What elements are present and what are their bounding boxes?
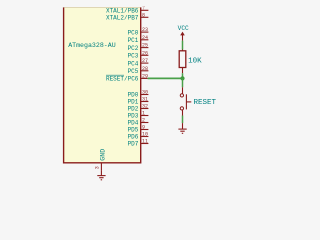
pin 28 PC5	[128, 66, 149, 75]
svg-text:29: 29	[142, 73, 148, 79]
pin 1 PD3	[128, 111, 149, 120]
pin 9 PD5	[128, 125, 149, 134]
svg-text:31: 31	[142, 97, 148, 103]
wire (VCC to R1)	[182, 41, 184, 50]
svg-text:VCC: VCC	[178, 25, 189, 32]
pin 7 XTAL1/PB6	[106, 5, 148, 14]
pin 8 XTAL2/PB7	[106, 12, 148, 21]
pin 24 PC1	[128, 35, 149, 44]
svg-text:7: 7	[142, 5, 145, 11]
svg-text:PD4: PD4	[128, 120, 139, 127]
svg-text:PD6: PD6	[128, 134, 139, 141]
pin 10 PD6	[128, 132, 149, 141]
svg-text:27: 27	[142, 58, 148, 64]
svg-text:26: 26	[142, 50, 148, 56]
svg-text:32: 32	[142, 104, 148, 110]
svg-text:9: 9	[142, 125, 145, 131]
wire (RESET/PC6 to junction)	[148, 77, 183, 79]
svg-text:XTAL2/PB7: XTAL2/PB7	[106, 15, 139, 22]
svg-text:PC4: PC4	[128, 60, 139, 67]
svg-text:24: 24	[142, 35, 148, 41]
svg-text:28: 28	[142, 66, 148, 72]
pin 2 PD4	[128, 118, 149, 127]
svg-text:RESET/PC6: RESET/PC6	[106, 76, 139, 83]
svg-text:PD1: PD1	[128, 99, 139, 106]
svg-text:ATmega328-AU: ATmega328-AU	[68, 42, 116, 49]
svg-text:PC0: PC0	[128, 29, 139, 36]
power VCC	[178, 25, 189, 41]
switch SW1 RESET	[180, 87, 216, 110]
ground (under SW1)	[178, 123, 186, 133]
svg-text:PC1: PC1	[128, 37, 139, 44]
wire (SW1 to ground)	[182, 110, 184, 123]
svg-text:30: 30	[142, 90, 148, 96]
svg-text:25: 25	[142, 43, 148, 49]
svg-text:PD2: PD2	[128, 106, 139, 113]
pin 30 PD0	[128, 90, 149, 99]
pin 11 PD7	[128, 139, 149, 148]
wire (R1 to junction)	[182, 73, 184, 78]
pin 25 PC2	[128, 43, 149, 52]
pin 26 PC3	[128, 50, 149, 59]
svg-text:23: 23	[142, 27, 148, 33]
node junction	[180, 76, 184, 80]
svg-text:PC2: PC2	[128, 45, 139, 52]
pin 31 PD1	[128, 97, 149, 106]
svg-text:PC3: PC3	[128, 53, 139, 60]
resistor R1 10K	[179, 50, 202, 74]
pin 23 PC0	[128, 27, 149, 36]
wire (junction to SW1)	[182, 78, 184, 87]
svg-text:PD5: PD5	[128, 127, 139, 134]
pin 32 PD2	[128, 104, 149, 113]
IC U1 ATmega328-AU body	[63, 7, 140, 162]
svg-text:PD3: PD3	[128, 113, 139, 120]
svg-text:XTAL1/PB6: XTAL1/PB6	[106, 8, 139, 15]
svg-text:PD7: PD7	[128, 141, 139, 148]
ground (under IC)	[97, 170, 105, 179]
svg-text:GND: GND	[99, 149, 106, 161]
pin 29 RESET/PC6	[106, 73, 148, 82]
svg-text:2: 2	[142, 118, 145, 124]
svg-text:10: 10	[142, 132, 148, 138]
svg-text:1: 1	[142, 111, 145, 117]
svg-text:RESET: RESET	[194, 99, 217, 107]
svg-text:PC5: PC5	[128, 68, 139, 75]
svg-text:8: 8	[142, 12, 145, 18]
pin 3 GND (bottom of IC)	[94, 149, 106, 171]
svg-text:10K: 10K	[188, 57, 202, 65]
svg-text:11: 11	[142, 139, 148, 145]
svg-text:PD0: PD0	[128, 92, 139, 99]
svg-text:3: 3	[94, 166, 100, 169]
pin 27 PC4	[128, 58, 149, 67]
